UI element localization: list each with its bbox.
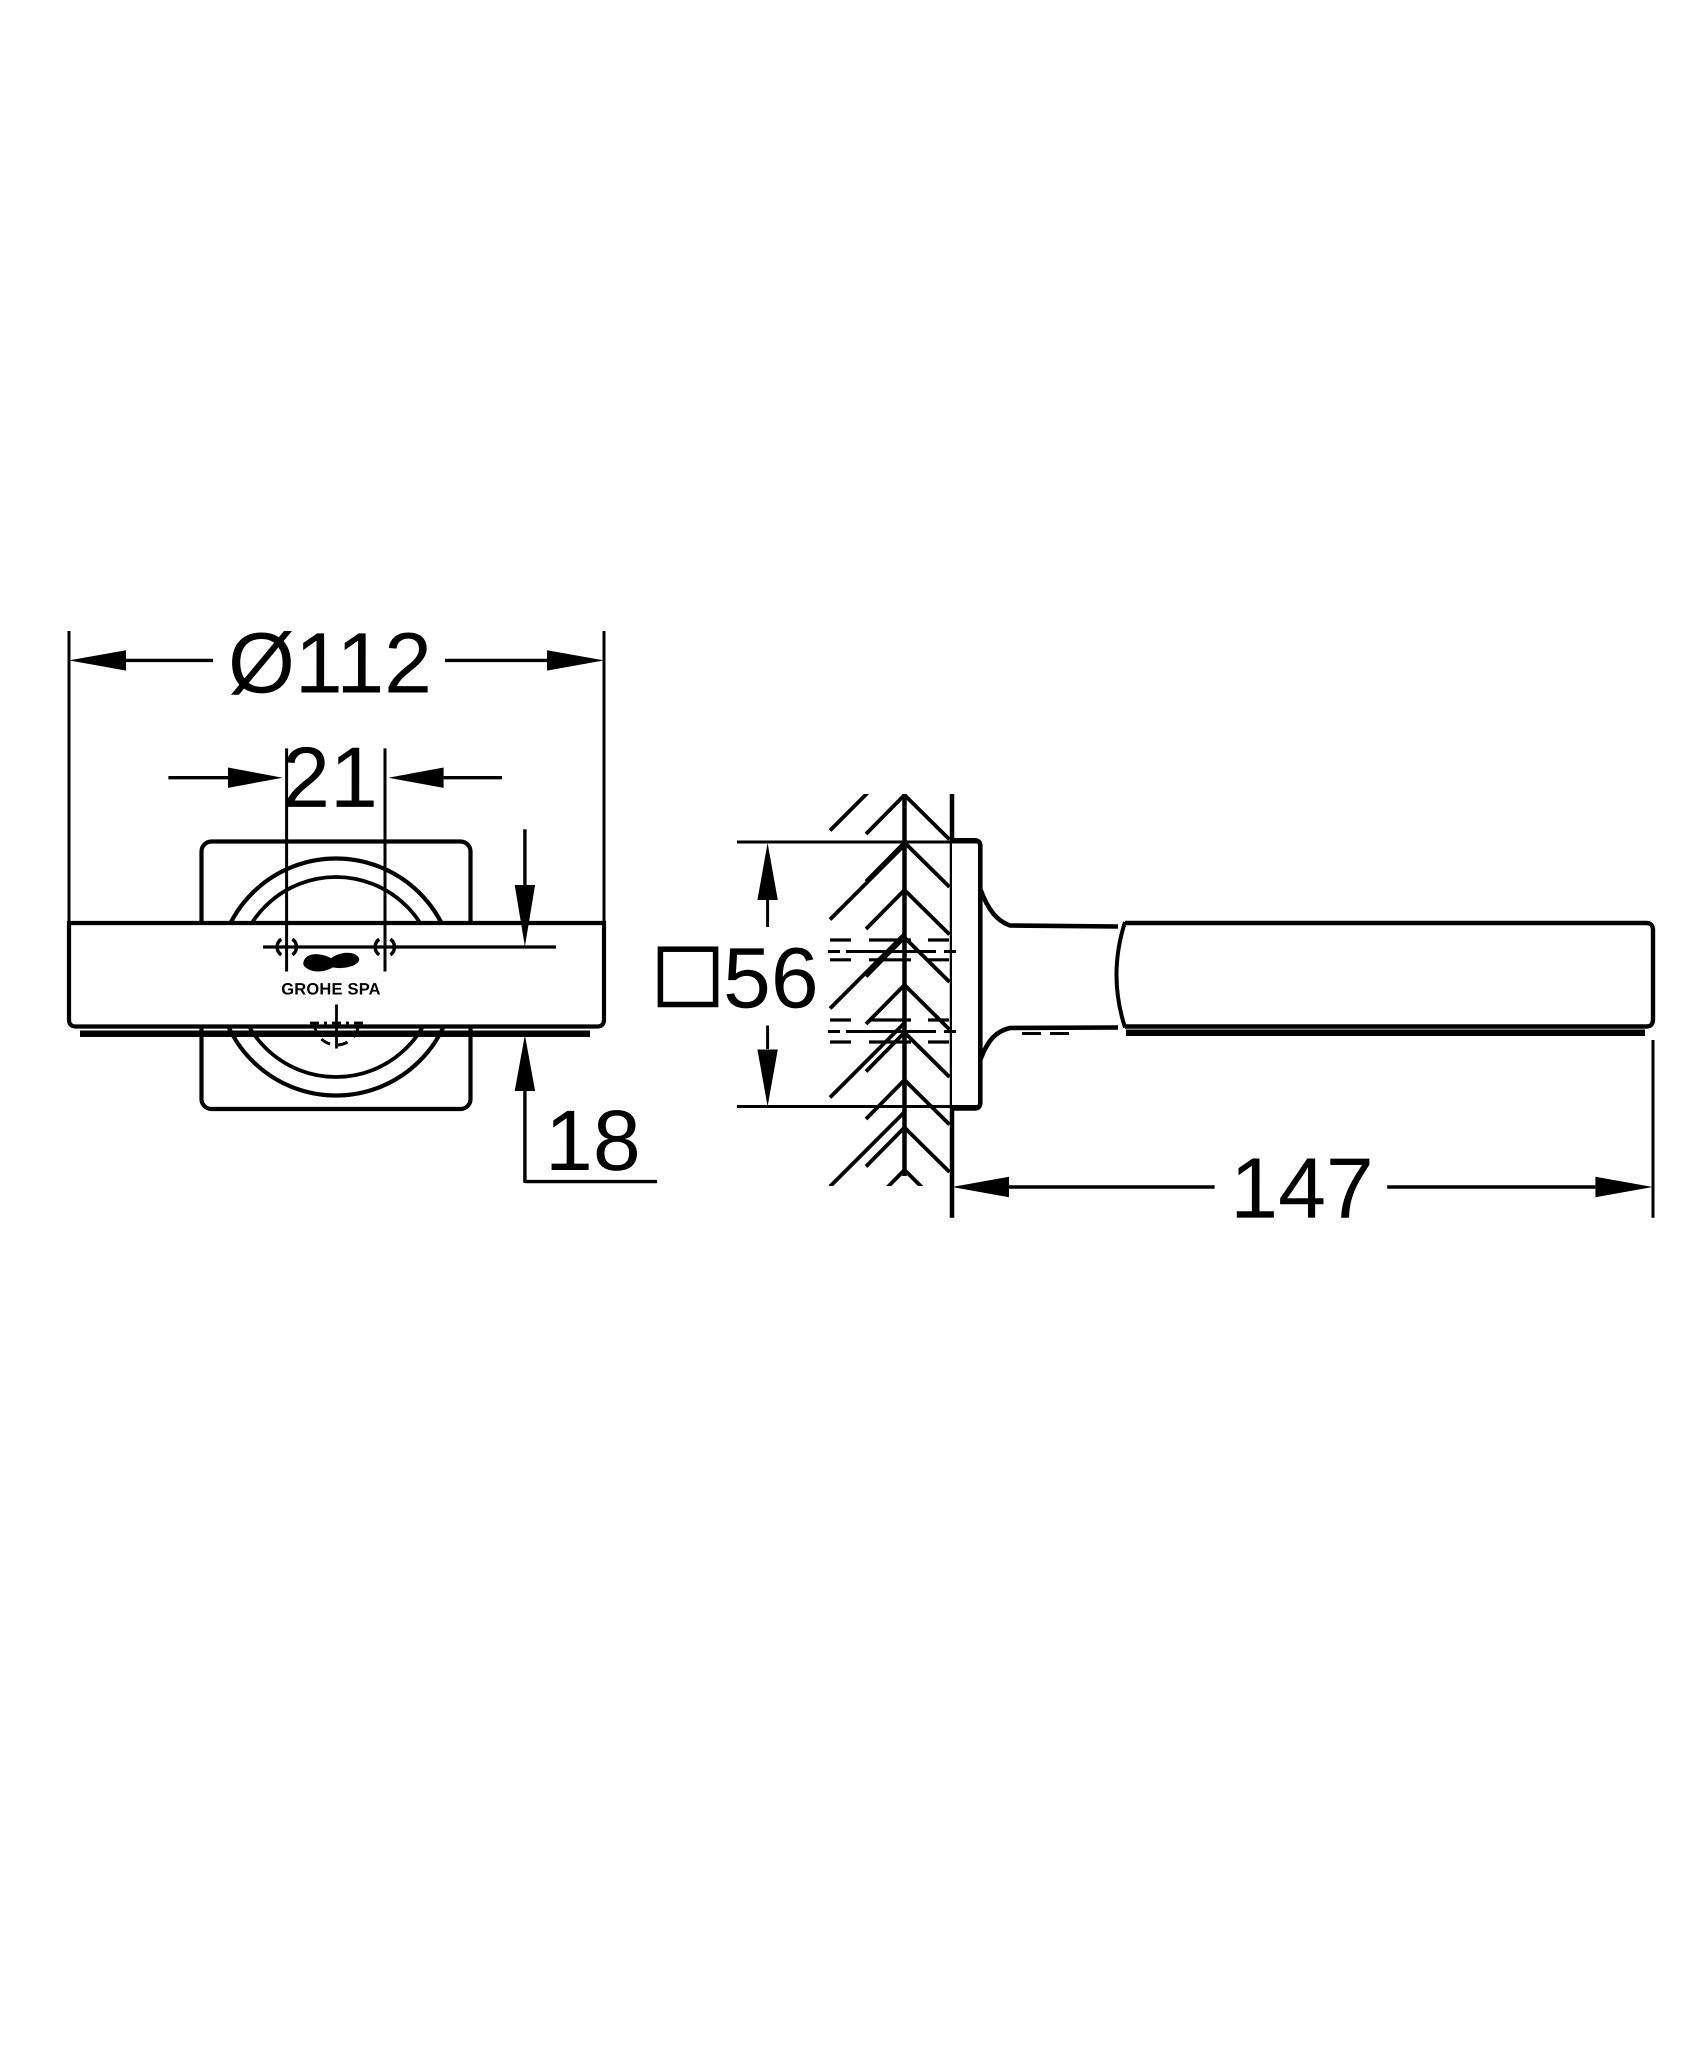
svg-text:Ø112: Ø112 [228,615,432,711]
svg-text:18: 18 [545,1093,641,1189]
svg-text:21: 21 [282,730,378,826]
svg-text:147: 147 [1230,1141,1374,1237]
svg-text:GROHE SPA: GROHE SPA [281,980,381,998]
svg-text:56: 56 [723,931,819,1027]
